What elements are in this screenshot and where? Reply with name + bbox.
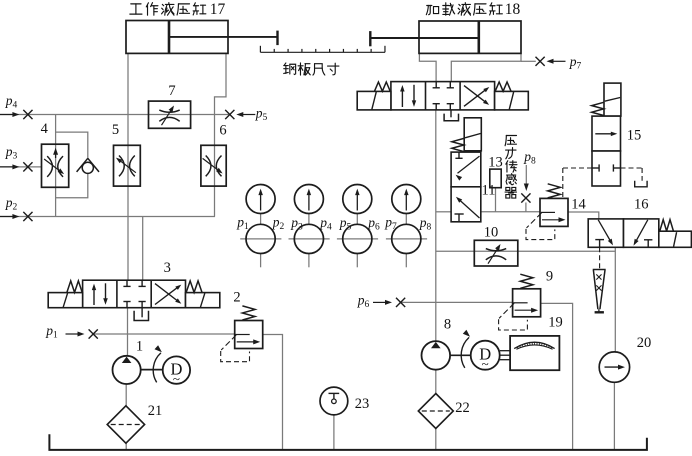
valve 3 left spring	[67, 281, 82, 293]
wire riser cylinder17 left port through valve5 to valve3	[127, 53, 129, 280]
cylinder 18 ram plate	[369, 31, 371, 46]
solenoid valve 11	[464, 118, 481, 151]
cylinder 18 rod	[370, 37, 479, 39]
valve 12 left box arrows	[401, 88, 403, 107]
check valve	[82, 162, 93, 173]
cylinder 17 ram plate	[276, 31, 278, 45]
pressure gauge column p7 p8	[386, 238, 427, 240]
svg-text:6: 6	[219, 123, 226, 139]
flow control valve 4	[42, 144, 69, 187]
wire p3 stub	[0, 166, 42, 168]
svg-text:15: 15	[627, 128, 642, 144]
svg-text:22: 22	[455, 400, 470, 416]
svg-text:7: 7	[168, 83, 175, 99]
steel plate ruler	[260, 51, 385, 53]
solenoid valve 15	[604, 83, 621, 116]
svg-text:19: 19	[548, 315, 563, 331]
relief valve 2	[242, 306, 255, 320]
wattmeter 19	[510, 336, 559, 370]
svg-text:23: 23	[355, 396, 370, 412]
pressure gauge column p5 p6	[337, 238, 378, 240]
pilot relief valve 14	[548, 184, 561, 198]
pressure sensor 13	[490, 169, 501, 188]
solenoid valve 16	[588, 219, 623, 247]
flow control valve 10	[474, 240, 518, 266]
filter 22	[418, 394, 453, 429]
valve 12 tank	[450, 110, 452, 117]
rotameter	[593, 269, 606, 271]
wire p6 line to valve9	[401, 301, 513, 303]
valve 3 tank	[141, 308, 143, 318]
wire valve2 return to tank	[263, 335, 283, 450]
svg-text:14: 14	[571, 197, 586, 213]
svg-text:11: 11	[482, 182, 496, 198]
wire valve6 branch down to valve3	[142, 217, 144, 281]
wire sensor line riser to valve14	[436, 211, 451, 213]
svg-text:20: 20	[637, 335, 652, 351]
port p5 test point and arrow	[225, 110, 234, 119]
cylinder 17 piston	[168, 21, 171, 53]
wire check valve bypass loop	[56, 132, 88, 158]
svg-text:8: 8	[444, 317, 451, 333]
valve 3 right solenoid	[186, 293, 220, 308]
svg-text:~: ~	[173, 371, 180, 386]
valve 12 right solenoid	[495, 91, 529, 110]
port p1 arrow and test point	[66, 333, 80, 335]
valve 3 left solenoid	[48, 293, 82, 308]
valve 3 left box arrows	[93, 287, 95, 306]
port p4 arrow and test point	[0, 114, 14, 116]
svg-text:9: 9	[546, 269, 553, 285]
wire flow line riser to valve16 through valve10	[436, 250, 616, 252]
port p7 test point and arrow	[536, 57, 545, 66]
wire valve16 down to flowmeter20 and tank	[614, 247, 616, 352]
flow meter 20	[599, 352, 629, 382]
cylinder 18 piston	[477, 22, 480, 54]
pressure gauge column p1 p2	[240, 238, 281, 240]
pressure gauge column p3 p4	[289, 238, 330, 240]
cylinder 18 body	[419, 21, 521, 53]
valve 12 left spring	[375, 82, 391, 91]
wire p8 test stub	[525, 203, 527, 212]
valve 3 right spring	[186, 281, 202, 293]
svg-text:16: 16	[634, 197, 649, 213]
wire p4-p5 gauge line	[0, 114, 230, 116]
flow control valve 7	[149, 101, 191, 128]
wire p2 line	[0, 216, 215, 218]
port p6 arrow and test point	[373, 301, 387, 303]
svg-text:2: 2	[233, 290, 240, 306]
thermometer 23	[320, 387, 348, 415]
port p3 arrow and test point	[0, 166, 14, 168]
wire cylinder18 left port down to valve12	[419, 54, 436, 82]
wire valve9 return to tank	[540, 303, 572, 449]
relief valve 9	[520, 274, 533, 288]
svg-text:18: 18	[505, 1, 521, 18]
wattmeter 19 connections	[500, 350, 510, 352]
wire p1 pump line	[93, 333, 235, 335]
filter 21	[107, 406, 144, 443]
wire valve14 out to valve16	[568, 212, 599, 219]
valve 12 crossed arrows box	[464, 89, 487, 107]
svg-text:5: 5	[112, 122, 119, 138]
valve 16 pilot dashed to rotameter	[599, 247, 601, 268]
directional valve 3 body	[83, 280, 186, 308]
port p2 arrow and test point	[0, 216, 14, 218]
svg-text:4: 4	[41, 121, 49, 137]
wire cylinder18 right port to p7 and valve12	[451, 54, 521, 82]
label pressure sensor text	[505, 135, 516, 145]
throttle valve 5	[114, 145, 141, 186]
valve 3 crossed arrows box	[155, 286, 179, 304]
wire cylinder17 right port jog through valve6	[215, 53, 227, 216]
valve 12 left solenoid	[357, 91, 391, 110]
wire pump1 riser	[127, 308, 129, 356]
pilot valve 15 dashed lines	[563, 167, 592, 169]
directional valve under cylinder 18 body	[391, 82, 495, 110]
pump 1 with motor	[141, 369, 163, 371]
wire pump1 to filter21 to tank	[125, 384, 127, 406]
label steel plate size	[284, 63, 296, 75]
valve 12 centre box blocked ports	[435, 82, 437, 88]
svg-text:10: 10	[484, 224, 499, 240]
svg-text:17: 17	[210, 1, 226, 18]
svg-text:13: 13	[488, 154, 503, 170]
wire sensor13 drop	[495, 188, 497, 212]
port p8 arrow and test point	[525, 165, 527, 187]
pump 8 with motor	[450, 354, 471, 356]
svg-text:3: 3	[164, 260, 171, 276]
throttle valve 6	[201, 145, 226, 186]
cylinder 17 rod	[170, 36, 278, 38]
wire pump8 to filter22 to tank	[435, 370, 437, 394]
title working cylinder 17	[130, 4, 142, 14]
title loading cylinder 18	[426, 5, 438, 14]
wire thermometer23 stem	[333, 415, 335, 450]
valve 3 centre box blocked ports	[126, 280, 128, 286]
wire riser valve4	[55, 115, 57, 217]
tank return line bottom	[49, 434, 647, 450]
cylinder 17 body	[126, 21, 228, 54]
wire main riser valve12 to pump8	[435, 110, 437, 341]
svg-text:~: ~	[482, 356, 489, 371]
svg-text:1: 1	[136, 339, 143, 355]
svg-text:21: 21	[148, 403, 163, 419]
valve 15 drain tank	[635, 181, 647, 187]
valve 12 right spring	[495, 82, 511, 91]
